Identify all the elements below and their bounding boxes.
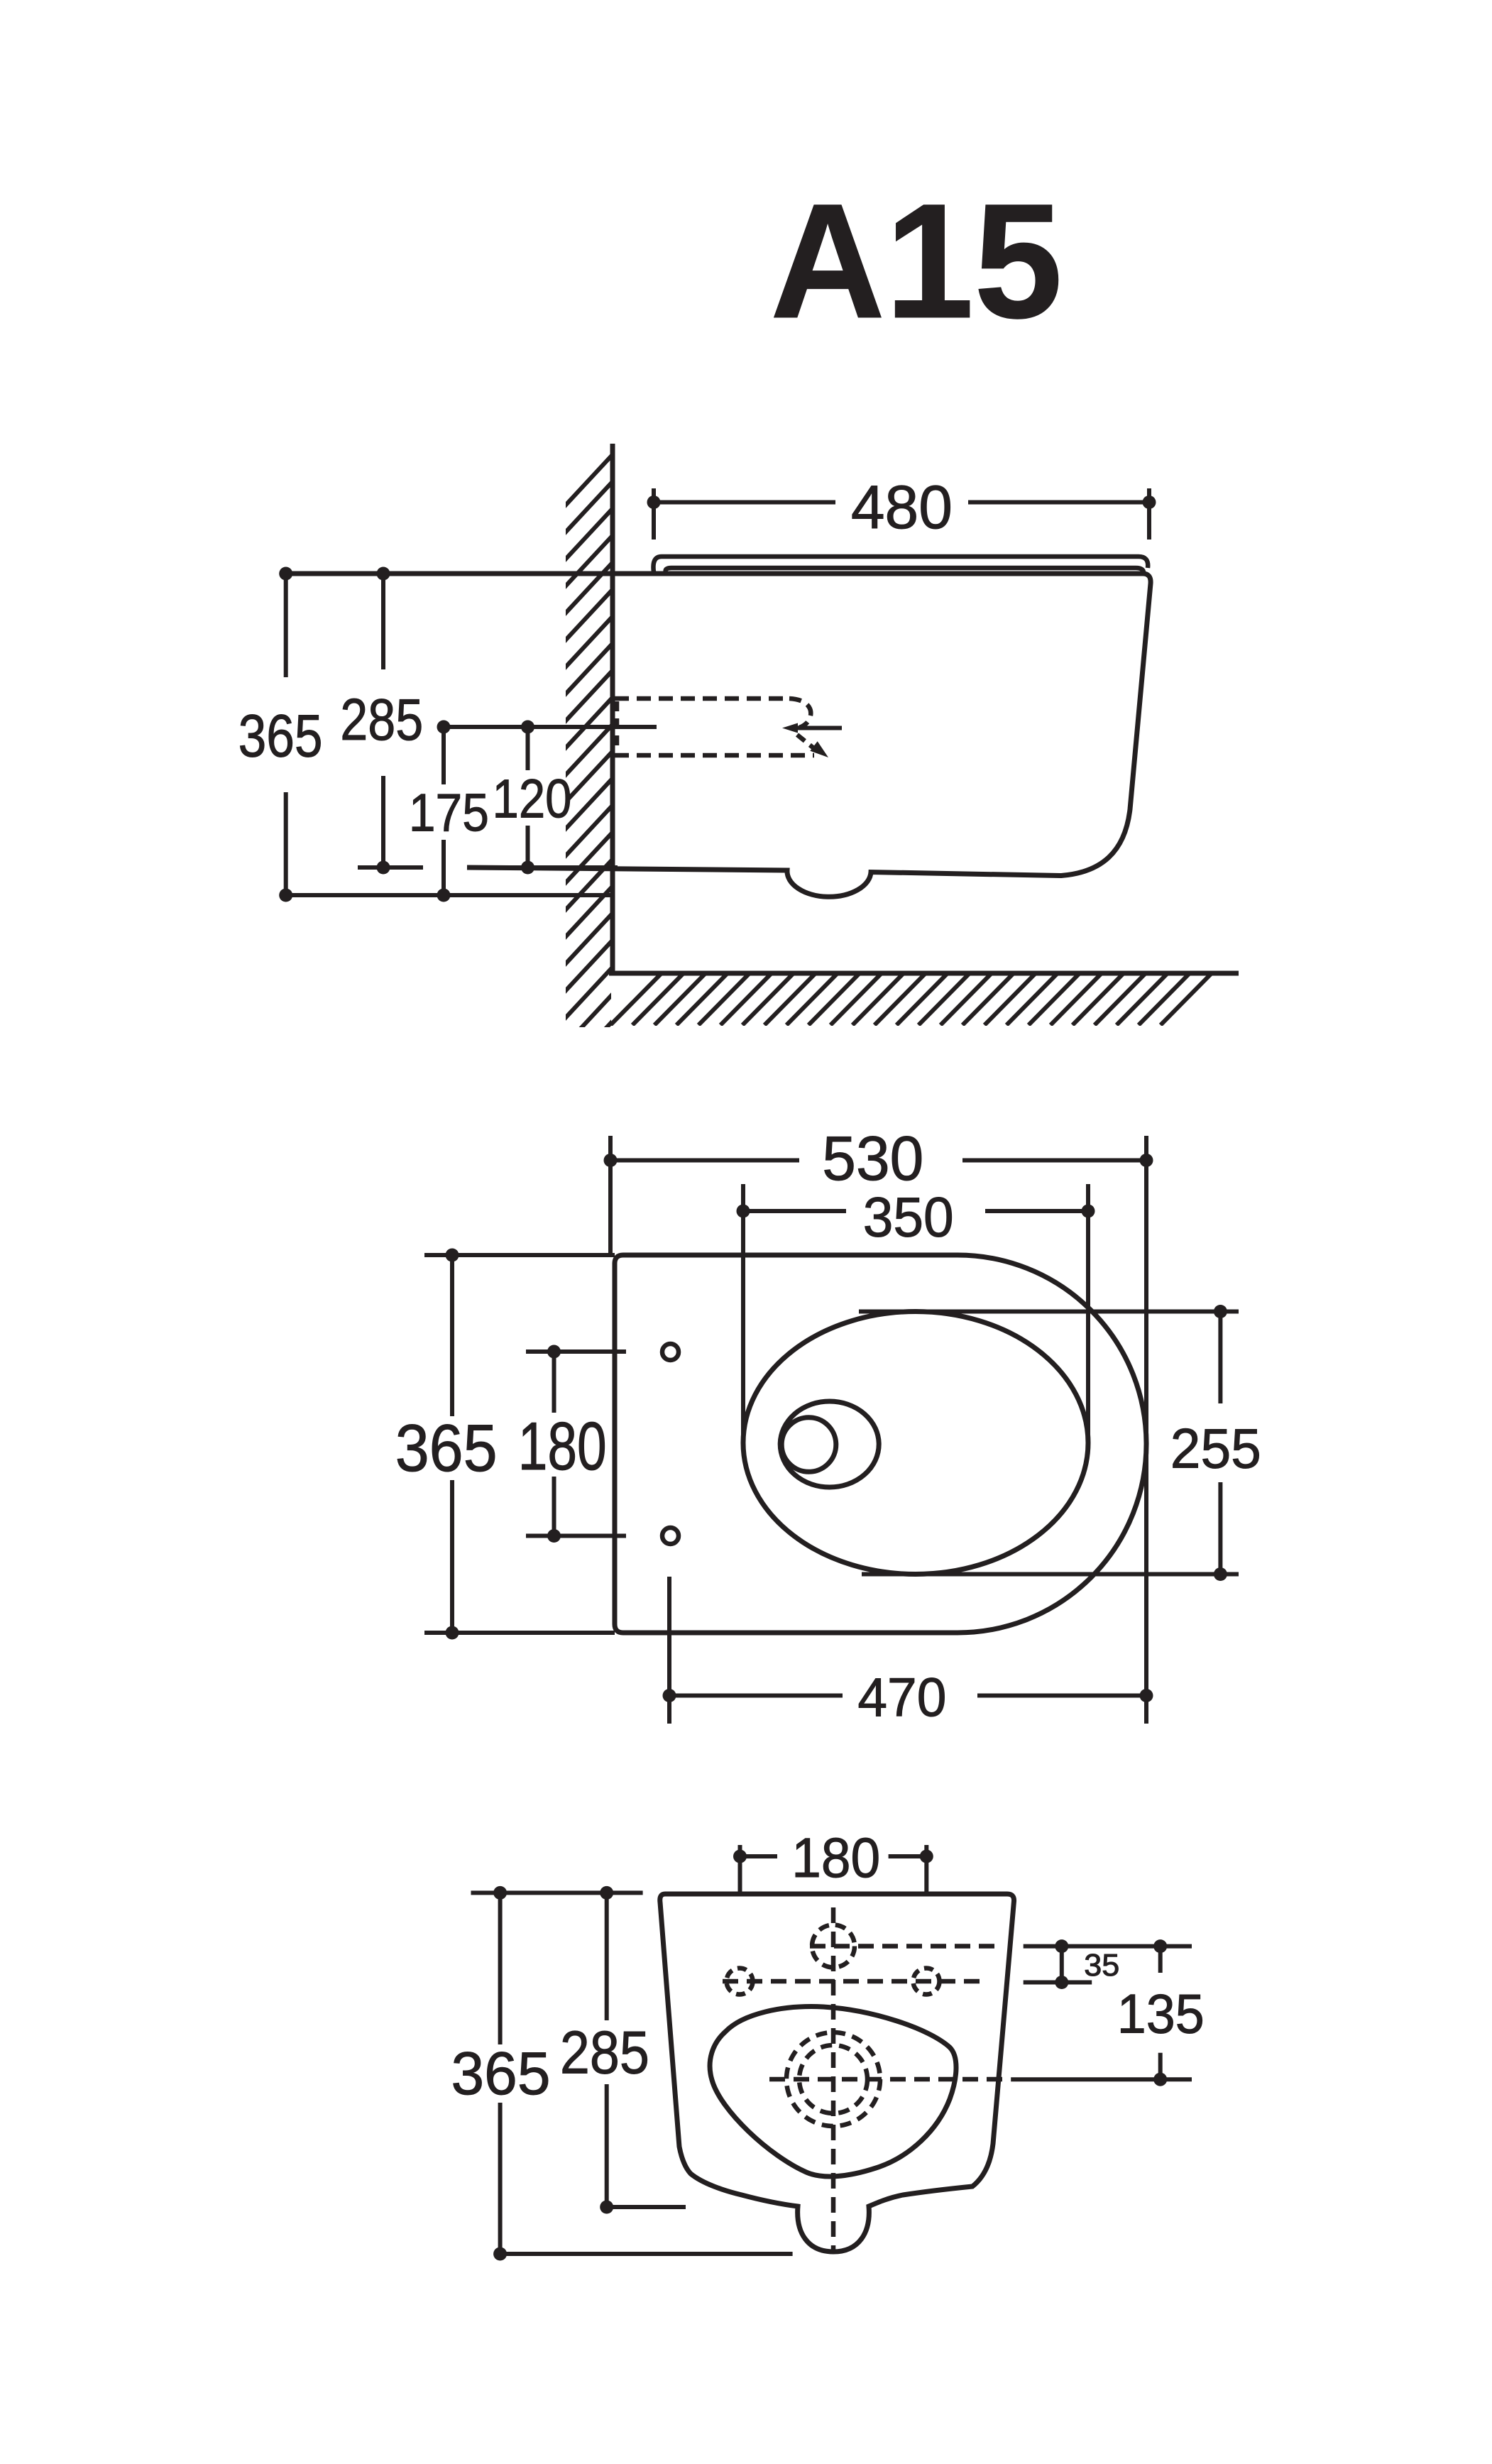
svg-text:180: 180 [791, 1826, 880, 1889]
svg-text:470: 470 [857, 1668, 946, 1728]
svg-text:285: 285 [340, 686, 423, 752]
svg-text:35: 35 [1084, 1948, 1119, 1983]
svg-text:350: 350 [863, 1186, 954, 1249]
svg-text:365: 365 [395, 1411, 498, 1485]
svg-text:365: 365 [451, 2039, 551, 2108]
svg-text:135: 135 [1117, 1983, 1205, 2045]
svg-text:480: 480 [851, 473, 953, 542]
svg-text:A15: A15 [770, 170, 1063, 352]
svg-text:285: 285 [560, 2018, 649, 2086]
svg-text:175: 175 [409, 784, 489, 843]
svg-text:120: 120 [493, 768, 572, 829]
svg-text:255: 255 [1170, 1418, 1261, 1480]
svg-text:365: 365 [238, 702, 323, 769]
svg-text:180: 180 [518, 1408, 607, 1484]
svg-text:530: 530 [822, 1123, 923, 1193]
